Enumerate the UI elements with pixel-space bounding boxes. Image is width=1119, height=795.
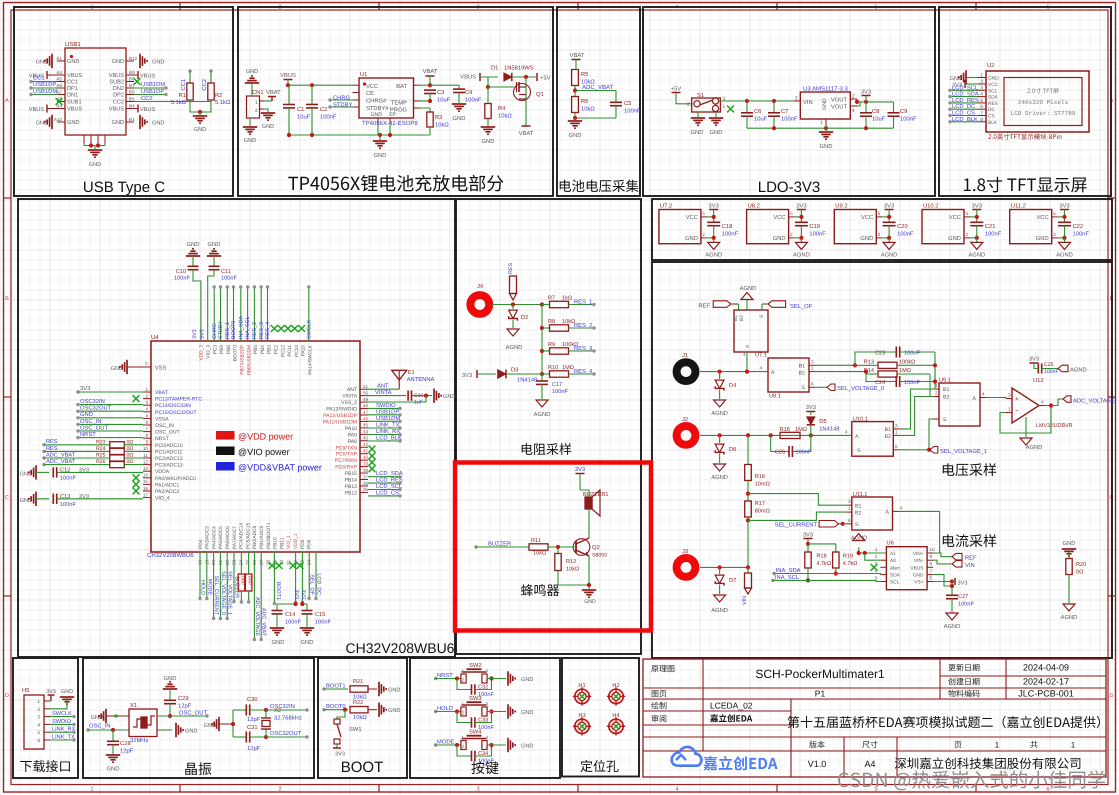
- wire LDO gnd rail: [747, 126, 894, 131]
- svg-text:GND: GND: [111, 366, 123, 372]
- svg-text:100nF: 100nF: [904, 380, 920, 386]
- svg-text:GND: GND: [988, 76, 999, 82]
- svg-text:@VIO power: @VIO power: [238, 447, 290, 457]
- svg-text:VBUS: VBUS: [67, 73, 83, 79]
- switch SW1: [334, 710, 362, 748]
- svg-text:LMV321IDBVR: LMV321IDBVR: [1036, 423, 1073, 429]
- wire R6 C5 gnd: [573, 113, 616, 121]
- svg-text:BLK: BLK: [988, 120, 998, 126]
- svg-text:VBUS: VBUS: [140, 74, 156, 80]
- svg-text:8: 8: [980, 117, 983, 123]
- svg-text:REF: REF: [698, 304, 710, 310]
- svg-text:100nF: 100nF: [900, 116, 917, 123]
- svg-text:10kΩ: 10kΩ: [435, 122, 449, 129]
- svg-text:1N4148: 1N4148: [819, 426, 839, 433]
- svg-text:PD4: PD4: [198, 539, 204, 549]
- svg-text:100nF: 100nF: [904, 351, 920, 357]
- ground AGND D4: [711, 400, 728, 417]
- svg-text:4: 4: [1041, 400, 1044, 405]
- svg-text:B1: B1: [855, 503, 861, 509]
- svg-text:36: 36: [363, 481, 369, 486]
- section box CH32V208WBU6: [18, 199, 455, 657]
- power 3V3 U11.2: [1059, 203, 1069, 223]
- svg-text:100nF: 100nF: [781, 116, 798, 123]
- svg-text:B12: B12: [129, 56, 138, 61]
- svg-text:B: B: [5, 296, 9, 302]
- svg-text:A: A: [771, 370, 775, 376]
- resistor R4: [485, 77, 514, 126]
- svg-text:NRST: NRST: [155, 436, 169, 442]
- svg-text:DNP: DNP: [241, 576, 246, 585]
- svg-text:6: 6: [848, 518, 851, 523]
- svg-text:U11.2: U11.2: [1011, 203, 1026, 210]
- net LCD_SCL mcu: [368, 483, 403, 491]
- IC U3 AMS1117: [794, 86, 857, 127]
- svg-text:3: 3: [145, 400, 148, 405]
- wire U10.2 vcc: [970, 215, 979, 219]
- svg-text:RES_1: RES_1: [574, 299, 592, 306]
- no-connect X S1: [727, 106, 734, 113]
- svg-text:STDBY#: STDBY#: [366, 105, 389, 112]
- svg-text:INA_SCL: INA_SCL: [245, 317, 251, 339]
- svg-text:1N4148: 1N4148: [517, 377, 537, 384]
- svg-text:A0: A0: [890, 558, 896, 564]
- svg-text:B2: B2: [943, 395, 949, 401]
- svg-text:R8: R8: [548, 319, 555, 325]
- svg-text:PB0/ADC8: PB0/ADC8: [252, 525, 258, 549]
- resistor R9: [542, 341, 596, 354]
- flag SEL_VOLTAGE_1: [899, 419, 987, 455]
- TFT pins: [978, 73, 999, 126]
- resistor R6: [572, 97, 596, 113]
- svg-text:AGND: AGND: [705, 252, 722, 259]
- svg-text:43: 43: [363, 436, 369, 441]
- svg-text:1: 1: [145, 387, 148, 392]
- power 3V3 bottom labels: [293, 589, 306, 599]
- IC U2 TFT display: [986, 62, 1089, 132]
- ground C10: [186, 241, 200, 266]
- svg-text:J1: J1: [682, 353, 688, 359]
- svg-text:PC12: PC12: [280, 345, 286, 357]
- svg-text:5: 5: [702, 211, 705, 216]
- svg-text:25: 25: [245, 560, 250, 566]
- wire U7.2 vcc: [707, 215, 716, 219]
- svg-text:A1: A1: [56, 56, 62, 61]
- svg-text:3V3: 3V3: [709, 203, 719, 210]
- no-connect X pins 42-39: [369, 446, 376, 473]
- IC U7.2 power block: [659, 203, 707, 244]
- svg-text:OSC32IN: OSC32IN: [270, 703, 295, 710]
- net LCD_RES mcu: [368, 477, 403, 485]
- capacitor C23: [875, 347, 935, 358]
- wire LDO in rail: [719, 99, 798, 103]
- svg-text:32MHz: 32MHz: [130, 737, 148, 744]
- connector CN1: [247, 89, 282, 118]
- svg-text:D1: D1: [491, 66, 498, 72]
- net USB1DM right: [134, 81, 168, 90]
- svg-text:C31: C31: [247, 724, 258, 731]
- svg-text:VCC: VCC: [773, 214, 785, 221]
- svg-text:2: 2: [461, 678, 464, 683]
- capacitor C25: [1034, 362, 1059, 375]
- svg-text:AGND: AGND: [968, 252, 985, 259]
- wire J3 row: [700, 565, 750, 569]
- svg-text:4: 4: [37, 722, 40, 728]
- svg-text:3: 3: [811, 359, 814, 364]
- svg-text:DC: DC: [988, 107, 995, 113]
- svg-text:3V3: 3V3: [462, 372, 472, 379]
- svg-text:VBAT: VBAT: [423, 69, 438, 75]
- svg-text:GND: GND: [860, 235, 873, 242]
- svg-text:GND: GND: [691, 129, 704, 136]
- ground divider: [568, 121, 582, 139]
- svg-text:GND: GND: [374, 152, 387, 159]
- net LCD_SDA: [948, 91, 979, 99]
- ground R4: [481, 127, 495, 145]
- power 3V3 TFT: [952, 80, 978, 89]
- svg-text:VBUS: VBUS: [29, 107, 45, 113]
- no-connect X pin2: [133, 395, 140, 402]
- svg-text:48: 48: [363, 403, 369, 408]
- svg-text:PC7/RXN: PC7/RXN: [335, 458, 357, 464]
- svg-text:12pF: 12pF: [120, 748, 134, 755]
- switch SW4: [461, 729, 489, 750]
- svg-text:GND: GND: [272, 639, 285, 646]
- connector H5: [22, 688, 44, 749]
- capacitor C2: [306, 85, 337, 135]
- svg-text:C30: C30: [247, 696, 258, 703]
- svg-text:GND: GND: [20, 472, 32, 478]
- svg-text:VIO_1: VIO_1: [286, 535, 292, 549]
- capacitor C10: [174, 266, 201, 341]
- svg-text:1: 1: [723, 104, 726, 110]
- diode D1: [491, 65, 536, 82]
- svg-text:VCC: VCC: [949, 214, 961, 221]
- svg-text:R6: R6: [581, 98, 588, 105]
- wire R1 R2 to GND: [190, 100, 211, 115]
- svg-text:PA12/USB1DP: PA12/USB1DP: [323, 413, 357, 419]
- capacitor C27: [946, 582, 974, 613]
- svg-text:GND: GND: [301, 639, 314, 646]
- power 3V3 U7.2: [709, 203, 719, 223]
- net SWCLK dl: [50, 711, 76, 718]
- ground left GND: [36, 54, 52, 68]
- diode D5: [807, 417, 840, 436]
- section box 定位孔: [562, 658, 639, 777]
- crystal X2: [261, 707, 302, 739]
- net BOOT0: [322, 703, 348, 712]
- capacitor C8: [860, 102, 886, 128]
- svg-text:PC8/TXP: PC8/TXP: [336, 452, 358, 458]
- svg-text:V1.0: V1.0: [808, 759, 827, 769]
- svg-text:PA4/ADC4: PA4/ADC4: [211, 526, 217, 549]
- svg-text:6: 6: [930, 576, 933, 581]
- section label 蜂鸣器: [521, 584, 559, 596]
- power 3V3 INA vs: [933, 578, 967, 587]
- svg-text:3V3: 3V3: [46, 689, 56, 695]
- IC U11.2 power block: [1010, 203, 1058, 244]
- svg-text:0: 0: [145, 361, 148, 366]
- svg-text:C10: C10: [176, 269, 186, 275]
- svg-text:17: 17: [143, 492, 149, 497]
- capacitor C11: [208, 266, 238, 341]
- capacitor C18: [707, 222, 738, 238]
- capacitor C14: [272, 611, 302, 628]
- flag SEL_CURRENT: [774, 521, 845, 529]
- svg-text:D7: D7: [729, 578, 736, 584]
- svg-text:SW4: SW4: [469, 729, 482, 736]
- svg-text:VCC: VCC: [686, 214, 698, 221]
- capacitor C7: [768, 101, 798, 128]
- svg-text:VINTA: VINTA: [342, 394, 357, 400]
- svg-text:3: 3: [848, 499, 851, 504]
- svg-text:4.7kΩ: 4.7kΩ: [843, 560, 858, 567]
- svg-text:42: 42: [363, 442, 369, 447]
- svg-text:BOOT0: BOOT0: [233, 345, 239, 362]
- net LCD_CS: [948, 110, 978, 118]
- svg-text:C1: C1: [297, 106, 304, 113]
- svg-text:3V3: 3V3: [972, 203, 982, 210]
- svg-text:GND: GND: [152, 121, 164, 127]
- capacitor C19: [795, 222, 826, 238]
- net NRST: [76, 431, 143, 439]
- wire U9.1 A to opamp: [986, 398, 1006, 399]
- svg-text:3: 3: [1008, 393, 1011, 398]
- power 3V3 U10.2: [972, 203, 982, 223]
- svg-text:PC3/ADC13: PC3/ADC13: [155, 463, 183, 469]
- net USB1DP right: [134, 88, 168, 96]
- ground X1 right: [157, 723, 197, 737]
- svg-text:USB1: USB1: [65, 41, 81, 48]
- net LCD_BLK: [948, 116, 978, 124]
- ground right GND2: [140, 115, 164, 129]
- svg-text:D5: D5: [819, 419, 826, 425]
- svg-text:EP: EP: [389, 112, 396, 118]
- svg-text:AGND: AGND: [1056, 252, 1073, 259]
- svg-text:10: 10: [930, 547, 936, 552]
- svg-text:3V3: 3V3: [1059, 203, 1069, 210]
- svg-text:PC15/OSC32OUT: PC15/OSC32OUT: [155, 410, 197, 416]
- power VBAT CN1: [264, 97, 276, 102]
- resistor R25: [42, 452, 143, 461]
- svg-text:PA14/SWCLK: PA14/SWCLK: [308, 344, 314, 375]
- svg-text:8: 8: [930, 561, 933, 566]
- switch SW2: [461, 662, 489, 683]
- svg-text:5: 5: [145, 413, 148, 418]
- svg-text:R13: R13: [864, 360, 874, 366]
- svg-text:10: 10: [143, 446, 149, 451]
- svg-text:VSS: VSS: [155, 366, 166, 372]
- svg-text:VBUS: VBUS: [460, 74, 476, 81]
- U4 right pin names: [323, 384, 369, 496]
- svg-text:GND: GND: [521, 677, 533, 683]
- svg-text:B1: B1: [799, 364, 805, 370]
- IC U10.2 power block: [922, 203, 970, 244]
- svg-text:BOOT0: BOOT0: [231, 321, 237, 339]
- svg-text:3V3: 3V3: [796, 203, 806, 210]
- svg-text:RES_3: RES_3: [574, 345, 592, 352]
- svg-text:VBUS: VBUS: [109, 107, 125, 113]
- svg-text:VCC: VCC: [366, 83, 378, 90]
- svg-text:1: 1: [90, 787, 93, 793]
- svg-text:OSC_OUT: OSC_OUT: [155, 430, 180, 436]
- TFT module note: [988, 134, 1061, 140]
- svg-text:U7.2: U7.2: [660, 203, 672, 210]
- net USB1DM: [29, 88, 57, 96]
- svg-text:PC2/ADC12: PC2/ADC12: [155, 456, 183, 462]
- svg-text:S: S: [802, 385, 806, 391]
- svg-text:2: 2: [278, 787, 281, 793]
- net BOOT1: [322, 683, 348, 691]
- svg-text:D: D: [1110, 693, 1114, 699]
- svg-text:GND: GND: [521, 710, 533, 716]
- svg-text:3: 3: [980, 85, 983, 91]
- svg-text:LCEDA_02: LCEDA_02: [710, 701, 753, 711]
- svg-text:100nF: 100nF: [174, 276, 190, 282]
- power VBUS right2: [134, 105, 156, 114]
- capacitor C16: [368, 390, 432, 406]
- svg-text:R2: R2: [215, 92, 222, 99]
- ground GND R20: [1062, 540, 1076, 558]
- wire J4 row: [492, 302, 544, 306]
- svg-text:PA11/USB1DM: PA11/USB1DM: [323, 419, 357, 425]
- svg-text:PC13/TAMPER-RTC: PC13/TAMPER-RTC: [155, 397, 202, 403]
- section box (untitled): [456, 199, 641, 654]
- svg-text:6: 6: [145, 420, 148, 425]
- power 3V3 SW1: [333, 748, 345, 758]
- svg-text:3: 3: [476, 787, 479, 793]
- U4 top pin names: [199, 344, 314, 375]
- net ANT wire: [368, 384, 399, 390]
- svg-text:Q1: Q1: [536, 91, 544, 98]
- svg-text:S: S: [857, 448, 861, 454]
- svg-text:C21: C21: [985, 223, 996, 230]
- svg-text:DP1: DP1: [67, 86, 78, 92]
- transistor Q1 PMOS: [514, 77, 544, 102]
- svg-text:P1: P1: [815, 689, 826, 699]
- svg-text:C29: C29: [178, 695, 189, 702]
- svg-text:5: 5: [790, 211, 793, 216]
- IC U6 INA226: [875, 540, 935, 590]
- wire U10.1 to U9.1: [899, 389, 933, 435]
- svg-text:SUB1: SUB1: [67, 100, 82, 106]
- resistor R18: [805, 552, 831, 583]
- ground SW2: [508, 671, 533, 685]
- svg-text:C28: C28: [120, 740, 131, 747]
- ground C29 top: [163, 675, 177, 700]
- svg-text:5: 5: [875, 576, 878, 581]
- svg-text:A6: A6: [56, 83, 62, 88]
- capacitor C5: [610, 91, 641, 119]
- svg-text:GND: GND: [1063, 540, 1076, 547]
- svg-text:−: −: [1015, 408, 1019, 415]
- svg-text:U10.2: U10.2: [923, 203, 938, 210]
- switch S1: [687, 92, 726, 112]
- svg-text:LDO-3V3: LDO-3V3: [758, 179, 821, 196]
- svg-text:X1: X1: [130, 703, 137, 709]
- net LINK_RX: [368, 429, 402, 436]
- power 3V3 C25: [1029, 356, 1039, 367]
- power +5V: [537, 73, 551, 82]
- svg-text:2024-02-17: 2024-02-17: [1023, 677, 1069, 687]
- svg-text:C26: C26: [775, 450, 785, 456]
- svg-text:GND: GND: [61, 689, 73, 695]
- svg-text:PB14: PB14: [345, 478, 358, 484]
- svg-text:46: 46: [363, 416, 369, 421]
- svg-text:PC5/ADC15: PC5/ADC15: [245, 523, 251, 549]
- svg-text:1: 1: [811, 366, 814, 371]
- svg-text:100nF: 100nF: [60, 475, 76, 481]
- capacitor C21: [970, 222, 1001, 238]
- svg-text:VIN: VIN: [742, 596, 748, 605]
- power 3V3 R18: [803, 532, 836, 553]
- svg-text:PA10: PA10: [345, 426, 357, 432]
- bottom bundle net labels: [200, 571, 322, 637]
- resistor R3: [420, 108, 449, 135]
- svg-text:10kΩ: 10kΩ: [566, 566, 579, 573]
- resistor R2: [201, 69, 231, 106]
- svg-text:USB1DP: USB1DP: [33, 81, 56, 88]
- svg-text:SEL_VOLTAGE_0: SEL_VOLTAGE_0: [220, 571, 226, 615]
- resistor R16: [745, 435, 770, 487]
- flag VIN INA: [952, 561, 975, 569]
- wire pin49 to C16 node: [368, 396, 426, 402]
- wire U11.2 gnd: [1058, 236, 1067, 243]
- svg-text:1: 1: [995, 741, 1000, 750]
- svg-text:2: 2: [1053, 232, 1056, 237]
- svg-text:+5V: +5V: [671, 87, 682, 93]
- svg-text:C18: C18: [722, 223, 733, 230]
- svg-text:VDD_1: VDD_1: [293, 533, 299, 549]
- svg-text:100nF: 100nF: [958, 602, 974, 608]
- wire AGND to A1 A0: [857, 551, 887, 560]
- svg-text:15: 15: [143, 479, 149, 484]
- svg-text:SCL: SCL: [988, 88, 998, 94]
- flag SEL_VOLTAGE_0: [815, 384, 884, 392]
- svg-text:2: 2: [702, 232, 705, 237]
- svg-text:GND: GND: [208, 241, 221, 248]
- svg-text:PD5: PD5: [300, 539, 306, 549]
- power 3V3 LDO: [861, 89, 871, 102]
- IC U9.1 analog switch: [933, 378, 986, 427]
- svg-text:DN1: DN1: [67, 93, 78, 99]
- svg-text:A12: A12: [54, 117, 63, 122]
- svg-text:PB12: PB12: [345, 490, 358, 496]
- svg-text:A: A: [973, 396, 977, 402]
- svg-text:3: 3: [486, 669, 489, 674]
- svg-text:9: 9: [930, 554, 933, 559]
- svg-text:SW3: SW3: [469, 695, 482, 702]
- IC U7.1 relay: [733, 310, 768, 372]
- svg-text:VCC: VCC: [988, 82, 999, 88]
- svg-text:10mΩ: 10mΩ: [755, 482, 770, 488]
- ground X2 left: [204, 717, 233, 731]
- title block: [643, 659, 1106, 777]
- flag REF INA: [952, 553, 977, 561]
- wire U8.2 gnd: [795, 236, 804, 243]
- legend VDD VBAT power: [216, 462, 322, 473]
- svg-text:10uF: 10uF: [754, 116, 768, 123]
- svg-text:VBAT: VBAT: [155, 390, 168, 396]
- svg-text:U6: U6: [886, 540, 893, 547]
- svg-text:RES: RES: [988, 101, 998, 107]
- svg-text:R24: R24: [96, 446, 106, 452]
- net SWDIO dl: [50, 719, 76, 726]
- resistor R21: [350, 679, 377, 701]
- connector J1: [677, 353, 696, 381]
- switch SW3: [461, 695, 489, 716]
- section box 晶振: [83, 658, 314, 778]
